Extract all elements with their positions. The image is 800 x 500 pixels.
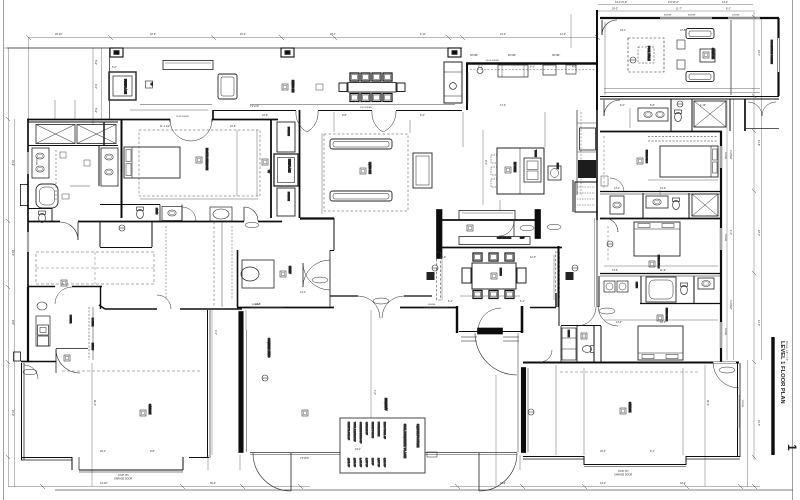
svg-text:8,124 SF: 8,124 SF [383,458,385,468]
svg-text:12'-0": 12'-0" [560,33,566,36]
svg-text:10'-0": 10'-0" [262,114,268,117]
svg-text:DINING RM: DINING RM [291,80,293,92]
svg-text:4'-0": 4'-0" [373,390,376,395]
svg-text:22'-1": 22'-1" [100,450,106,453]
svg-text:12'-0": 12'-0" [530,256,536,259]
svg-text:REF: REF [520,238,525,240]
svg-text:24'-2": 24'-2" [757,420,760,426]
svg-text:16'-4": 16'-4" [500,482,506,485]
svg-text:FIREPLACE: FIREPLACE [288,159,291,173]
svg-text:NOOK: NOOK [556,163,558,170]
svg-text:COVERED PATIO: COVERED PATIO [267,338,270,357]
svg-text:3811 DRIVEWAY PLACE: 3811 DRIVEWAY PLACE [403,424,407,458]
svg-text:11'-9": 11'-9" [660,269,666,272]
svg-text:BEDROOM 4: BEDROOM 4 [657,255,659,269]
svg-text:24'-1": 24'-1" [620,29,626,32]
svg-text:3050SH: 3050SH [732,15,740,17]
svg-text:36'-2": 36'-2" [210,482,216,485]
svg-text:LINEN: LINEN [635,282,637,288]
svg-text:12'x8' SLIDER: 12'x8' SLIDER [176,116,189,118]
svg-text:12'-0": 12'-0" [440,256,446,259]
svg-text:GARAGE SF: GARAGE SF [365,422,368,435]
svg-text:14'-6": 14'-6" [757,140,760,146]
svg-text:21'-4": 21'-4" [500,33,506,36]
svg-text:9'x8' SLIDER: 9'x8' SLIDER [360,107,372,109]
svg-text:18'-2": 18'-2" [11,250,14,256]
svg-text:4'-10": 4'-10" [700,104,706,107]
svg-text:17'-2": 17'-2" [500,104,506,107]
svg-text:8'-1": 8'-1" [650,450,655,453]
svg-text:11'-1 1/2": 11'-1 1/2" [160,125,170,128]
svg-text:5'-6": 5'-6" [94,108,97,113]
svg-text:COFFEE BAR: COFFEE BAR [497,237,511,240]
svg-text:1: 1 [785,444,799,451]
svg-text:BLDG TOTAL SF: BLDG TOTAL SF [383,422,386,439]
svg-text:1,421 SF: 1,421 SF [359,458,361,468]
svg-text:12'-2": 12'-2" [660,187,666,190]
svg-text:4,892 SF: 4,892 SF [347,458,349,468]
svg-text:8'-11": 8'-11" [420,33,426,36]
svg-text:3050SH: 3050SH [724,152,726,160]
svg-text:7'2"x4'0": 7'2"x4'0" [250,105,259,108]
svg-text:LINEN: LINEN [155,208,157,215]
svg-text:11'-2": 11'-2" [706,400,709,406]
svg-text:14'-0": 14'-0" [600,482,606,485]
svg-text:TRASH: TRASH [534,150,537,157]
svg-text:16'-4": 16'-4" [240,33,246,36]
svg-text:BUILT-IN: BUILT-IN [287,127,289,136]
svg-text:13'-4": 13'-4" [722,1,728,4]
svg-text:7'0"x8'0": 7'0"x8'0" [300,457,309,460]
svg-text:48"x96": 48"x96" [508,54,516,57]
svg-text:3050SH: 3050SH [688,15,696,17]
svg-text:FIRST FLOOR SF: FIRST FLOOR SF [347,422,349,440]
svg-text:14'-10": 14'-10" [100,482,108,485]
svg-text:5'-8": 5'-8" [650,104,655,107]
svg-text:3050SH: 3050SH [252,304,260,306]
svg-text:13'-4"x9'-0": 13'-4"x9'-0" [615,1,627,4]
svg-text:BENCH: BENCH [91,343,93,351]
svg-text:9'-8": 9'-8" [342,114,347,117]
svg-text:STUDY: STUDY [288,266,290,274]
svg-text:8'-1": 8'-1" [726,8,731,11]
svg-text:PROJECTION SCREEN: PROJECTION SCREEN [770,40,772,64]
svg-text:FRONT PORCH: FRONT PORCH [371,422,373,438]
svg-text:4'-0": 4'-0" [572,66,577,69]
svg-text:9'-8": 9'-8" [11,320,14,325]
svg-text:9'-0"x5'-0": 9'-0"x5'-0" [668,1,679,4]
svg-text:36"x84": 36"x84" [552,54,560,57]
svg-text:4'-0": 4'-0" [729,230,732,235]
svg-text:3050SH: 3050SH [35,158,37,166]
svg-text:23'-1": 23'-1" [355,448,361,451]
svg-text:GARAGE: GARAGE [628,402,631,413]
svg-text:3050SH: 3050SH [741,400,743,408]
svg-text:24'-0": 24'-0" [11,410,14,416]
svg-text:36"x84": 36"x84" [470,54,478,57]
svg-text:CLOSET: CLOSET [729,150,732,160]
svg-text:BENCH: BENCH [567,330,569,338]
svg-text:22'-6": 22'-6" [150,33,156,36]
svg-text:SQUARE FOOTAGE: SQUARE FOOTAGE [416,424,419,448]
svg-text:9'-2": 9'-2" [94,84,97,89]
svg-text:LOCKER: LOCKER [69,315,71,324]
svg-text:BUILT-IN: BUILT-IN [287,192,289,201]
svg-text:16'x8' SLIDER: 16'x8' SLIDER [486,60,499,62]
svg-text:TOTAL LIVABLE SF: TOTAL LIVABLE SF [353,422,356,442]
svg-text:14'-0": 14'-0" [757,320,760,326]
svg-text:3050SH: 3050SH [724,234,726,242]
svg-text:11'-7": 11'-7" [676,8,682,11]
svg-text:9'-2": 9'-2" [484,160,487,165]
svg-text:20'-2": 20'-2" [612,8,618,11]
svg-text:GAME RM: GAME RM [711,48,714,59]
svg-text:1,237 SF: 1,237 SF [365,458,367,468]
svg-text:5'-0": 5'-0" [112,66,117,69]
svg-text:5'-6": 5'-6" [94,60,97,65]
svg-text:12'-0": 12'-0" [660,321,666,324]
svg-text:LOCKER: LOCKER [91,318,93,327]
svg-text:GARAGE DOOR: GARAGE DOOR [614,474,632,477]
svg-text:18'-10": 18'-10" [55,33,63,36]
svg-text:LIVING RM: LIVING RM [368,162,370,174]
svg-text:864 SF: 864 SF [371,458,373,466]
svg-text:16'-6": 16'-6" [230,125,236,128]
svg-text:6'-2": 6'-2" [530,66,535,69]
svg-text:9'-1": 9'-1" [478,66,483,69]
svg-text:SCALE: 1/4" = 1'-0": SCALE: 1/4" = 1'-0" [785,341,788,361]
svg-text:FIREPLACE: FIREPLACE [124,79,128,94]
svg-text:3050SH: 3050SH [724,328,726,336]
svg-text:18'-2": 18'-2" [680,482,686,485]
svg-text:13'-6": 13'-6" [612,269,618,272]
svg-text:6,887 SF: 6,887 SF [377,458,379,468]
svg-text:GARAGE DOOR: GARAGE DOOR [114,478,132,481]
svg-text:14'-1": 14'-1" [614,187,620,190]
svg-text:12'-4": 12'-4" [757,230,760,236]
svg-text:9'-8": 9'-8" [150,450,155,453]
svg-text:24'-6": 24'-6" [11,160,14,166]
svg-text:18'-1": 18'-1" [330,33,336,36]
svg-text:POOL TABLE: POOL TABLE [647,46,650,61]
svg-text:18'-4": 18'-4" [600,450,606,453]
svg-text:DINING: DINING [499,268,501,276]
svg-text:CLOSET: CLOSET [729,300,732,310]
svg-text:GARAGE: GARAGE [148,404,151,415]
svg-text:12'-5": 12'-5" [680,29,686,32]
svg-text:MASTER BEDROOM: MASTER BEDROOM [205,148,208,170]
svg-text:6'-2": 6'-2" [620,104,625,107]
svg-text:4,892 SF: 4,892 SF [353,458,355,468]
svg-text:COVERED PATIO SF: COVERED PATIO SF [359,422,362,444]
svg-text:14'-2": 14'-2" [616,321,622,324]
svg-text:3050SH: 3050SH [428,304,436,306]
svg-text:BEDROOM 3: BEDROOM 3 [645,150,647,164]
svg-text:FOUNDATION: FOUNDATION [377,422,380,437]
svg-text:5'-1": 5'-1" [520,300,525,303]
svg-text:DRIVEWAY: DRIVEWAY [384,398,387,411]
svg-text:21'-4": 21'-4" [757,50,760,56]
svg-text:11'-2": 11'-2" [93,400,96,406]
svg-text:4'-0": 4'-0" [214,330,217,335]
svg-text:5'-1": 5'-1" [448,300,453,303]
svg-text:KITCHEN: KITCHEN [513,162,515,172]
svg-text:3050SH: 3050SH [664,15,672,17]
svg-text:12'-1": 12'-1" [300,291,306,294]
svg-text:LEVEL 1 FLOOR PLAN: LEVEL 1 FLOOR PLAN [779,341,785,404]
svg-text:8'-4": 8'-4" [420,114,425,117]
